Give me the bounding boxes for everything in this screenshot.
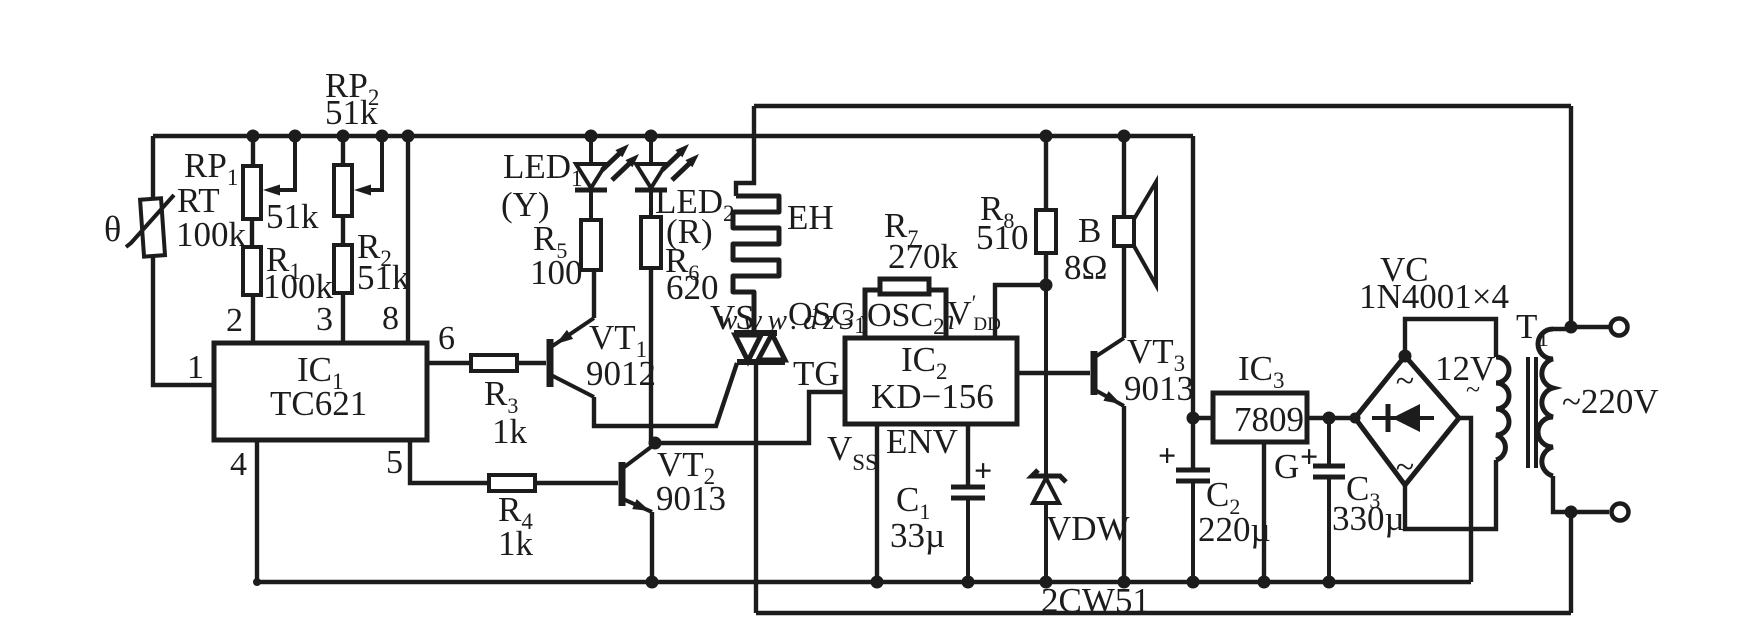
svg-text:~: ~ xyxy=(1466,375,1480,404)
wire bridge top to secondary top xyxy=(1405,319,1496,357)
svg-text:2CW51: 2CW51 xyxy=(1041,581,1150,620)
svg-text:OSC2: OSC2 xyxy=(867,297,945,339)
label R7 xyxy=(884,206,918,250)
svg-text:2: 2 xyxy=(226,302,243,339)
speaker B xyxy=(1114,182,1156,285)
wire IC3 G pin to ground xyxy=(1262,442,1266,582)
bridge rectifier VC xyxy=(1355,356,1459,486)
label C2 xyxy=(1206,475,1240,519)
node speaker top xyxy=(1118,130,1131,143)
svg-text:+: + xyxy=(974,452,992,488)
resistor R3 xyxy=(471,355,517,371)
label VC xyxy=(1380,250,1429,289)
LED D1 (LED1) xyxy=(575,136,639,220)
node top terminal junction xyxy=(1565,321,1578,334)
transistor VT1 9012 xyxy=(550,318,594,397)
value 8ohm xyxy=(1064,248,1108,287)
node LED1 anode xyxy=(585,130,598,143)
capacitor C3 330u xyxy=(1300,418,1345,582)
label VDD' xyxy=(947,290,1001,335)
svg-text:G: G xyxy=(1274,447,1299,486)
wire mains rail down to EH xyxy=(736,106,754,196)
label C3 xyxy=(1346,469,1380,513)
svg-text:9013: 9013 xyxy=(1124,369,1194,408)
svg-text:330µ: 330µ xyxy=(1332,499,1405,538)
value 330u (C3) xyxy=(1332,499,1405,538)
value 9012 xyxy=(586,354,656,393)
label OSC1 xyxy=(788,296,866,338)
svg-text:3: 3 xyxy=(316,301,333,338)
value 2CW51 xyxy=(1041,581,1150,620)
label R5 xyxy=(533,219,567,263)
node RP1 wiper xyxy=(289,130,302,143)
node C3 tap xyxy=(1323,412,1336,425)
label VT1 xyxy=(589,318,647,362)
IC U2 oscillator notch xyxy=(865,290,946,338)
wire IC3 output xyxy=(1307,416,1355,420)
svg-text:1k: 1k xyxy=(498,524,534,563)
label θ xyxy=(104,209,121,249)
node RP1 top xyxy=(247,130,260,143)
svg-text:8: 8 xyxy=(382,300,399,337)
label (Y) xyxy=(501,185,550,224)
label C1 xyxy=(896,480,930,524)
value 51k (RP2) xyxy=(325,93,378,132)
node pin8 tap xyxy=(402,130,415,143)
svg-text:8Ω: 8Ω xyxy=(1064,248,1108,287)
resistor R6 xyxy=(641,217,661,268)
wire rail to IC1 pin8 xyxy=(406,136,410,343)
wire rail to RT top xyxy=(151,136,155,200)
label (R) xyxy=(666,212,713,251)
wire mains top rail xyxy=(754,104,1571,108)
svg-text:270k: 270k xyxy=(888,237,959,276)
value 9013 (VT3) xyxy=(1124,369,1194,408)
label VT2 xyxy=(657,445,715,489)
pin 4 xyxy=(230,446,247,483)
RP2 wiper arm xyxy=(354,136,382,196)
label R2 xyxy=(357,227,392,271)
value 1N4001x4 xyxy=(1359,277,1509,316)
value 510 (R8) xyxy=(976,218,1029,257)
label OSC2 xyxy=(867,297,945,339)
svg-text:51k: 51k xyxy=(266,197,319,236)
svg-text:TG: TG xyxy=(793,354,840,393)
svg-text:33µ: 33µ xyxy=(890,516,945,555)
wire primary top to terminal xyxy=(1553,327,1571,331)
wire R6 to VT2 collector node xyxy=(649,268,653,443)
node VDD junction xyxy=(1040,279,1053,292)
potentiometer RP1 body xyxy=(243,166,261,219)
label R3 xyxy=(484,374,518,418)
transistor VT2 9013 xyxy=(622,444,655,512)
resistor R8 xyxy=(1036,210,1056,253)
svg-text:~: ~ xyxy=(1396,449,1414,486)
node RP2 wiper xyxy=(376,130,389,143)
LED D2 (LED2) xyxy=(635,136,699,217)
label VDW xyxy=(1046,509,1130,548)
label EH xyxy=(787,198,834,237)
node IC3 input xyxy=(1187,412,1200,425)
svg-text:OSC1: OSC1 xyxy=(788,296,866,338)
wire mains rail down to top terminal xyxy=(1571,106,1609,327)
transformer T1 primary winding 220V xyxy=(1538,329,1553,476)
wire mains bottom rail up to bottom terminal xyxy=(1569,512,1573,613)
node C3 ground xyxy=(1323,576,1336,589)
node VDW ground xyxy=(1040,576,1053,589)
label T1 xyxy=(1516,307,1549,351)
label RP2 xyxy=(325,66,379,110)
wire rail to R8 xyxy=(1044,136,1048,210)
svg-text:4: 4 xyxy=(230,446,247,483)
wire R8 to VDD node xyxy=(1044,253,1048,285)
wire triac MT2 down to mains bottom rail xyxy=(754,365,758,613)
wire IC2 output to VT3 base xyxy=(1017,371,1090,375)
terminal bottom xyxy=(1612,504,1629,521)
svg-text:1k: 1k xyxy=(492,412,528,451)
label TG xyxy=(793,354,840,393)
node C1 ground xyxy=(962,576,975,589)
pin 2 xyxy=(226,302,243,339)
value 620 (R6) xyxy=(666,268,719,307)
svg-text:5: 5 xyxy=(386,444,403,481)
svg-text:+: + xyxy=(1158,437,1176,473)
wire R4 to VT2 base xyxy=(535,481,618,485)
triac VS xyxy=(734,333,785,362)
IC U2 KD-156 xyxy=(845,338,1017,424)
label R4 xyxy=(498,490,533,534)
svg-text:EH: EH xyxy=(787,198,834,237)
value 100k (R1) xyxy=(263,267,334,306)
label 7809 xyxy=(1234,400,1304,439)
label RP1 xyxy=(184,146,238,190)
wire VT1 emitter to R5 xyxy=(592,270,596,318)
value 270k (R7) xyxy=(888,237,959,276)
wire rail to RP1 xyxy=(251,136,255,166)
wire R2 to IC1 pin3 xyxy=(341,293,345,343)
wire IC2 VDD pin to R8 node xyxy=(995,285,1046,338)
label KD-156 xyxy=(871,377,994,416)
wire IC3 input stub xyxy=(1193,416,1213,420)
wire RP2 to R2 xyxy=(341,216,345,245)
value 1k (R3) xyxy=(492,412,528,451)
wire bridge right to ground rail xyxy=(1459,418,1471,582)
svg-text:6: 6 xyxy=(438,320,455,357)
resistor R1 xyxy=(243,247,261,295)
terminal top xyxy=(1611,319,1628,336)
svg-text:9012: 9012 xyxy=(586,354,656,393)
value 100 (R5) xyxy=(530,253,583,292)
wire primary bottom to terminal xyxy=(1553,476,1609,512)
capacitor C2 220u xyxy=(1158,437,1210,582)
node bridge left vertex xyxy=(1350,413,1361,424)
thermistor RT xyxy=(126,195,174,257)
watermark xyxy=(718,304,960,336)
node bottom terminal junction xyxy=(1565,506,1578,519)
svg-text:510: 510 xyxy=(976,218,1029,257)
svg-text:θ: θ xyxy=(104,209,121,249)
wire IC1 pin5 to R4 xyxy=(410,440,489,483)
label LED1 xyxy=(503,147,583,191)
resistor R4 xyxy=(489,475,535,491)
wire IC1 pin4 to ground rail xyxy=(255,440,259,582)
label 12V tilde xyxy=(1466,375,1480,404)
node R8 top xyxy=(1040,130,1053,143)
label VSS xyxy=(827,429,878,475)
pin 3 xyxy=(316,301,333,338)
capacitor C1 33u xyxy=(951,452,992,582)
label IC3 xyxy=(1238,349,1285,393)
wire bridge bottom to secondary bottom xyxy=(1405,460,1496,529)
label G xyxy=(1274,447,1299,486)
pin 5 xyxy=(386,444,403,481)
svg-text:~: ~ xyxy=(1396,363,1414,400)
svg-text:100: 100 xyxy=(530,253,583,292)
label 12V xyxy=(1435,349,1495,388)
svg-text:+: + xyxy=(1300,438,1318,474)
value 100k (RT) xyxy=(176,215,247,254)
wire top 9V rail xyxy=(153,134,1193,138)
label ~220V xyxy=(1562,382,1659,421)
RP1 wiper arm xyxy=(263,136,295,196)
IC U1 TC621 xyxy=(214,343,427,440)
label VS xyxy=(710,298,755,337)
node VT3 emitter ground xyxy=(1118,576,1131,589)
wire IC1 pin6 to R3 xyxy=(427,361,471,365)
node VSS ground xyxy=(871,576,884,589)
label RT xyxy=(177,181,220,220)
zener diode VDW 2CW51 xyxy=(1032,285,1066,582)
svg-text:1: 1 xyxy=(187,349,204,386)
transformer T1 secondary winding 12V xyxy=(1496,357,1509,460)
node bridge top vertex xyxy=(1399,350,1412,363)
transistor VT3 9013 xyxy=(1094,338,1124,406)
node VT2 emitter ground xyxy=(646,576,659,589)
resistor R2 xyxy=(334,245,352,293)
wire R3 to VT1 base xyxy=(517,361,546,365)
svg-text:220µ: 220µ xyxy=(1198,510,1271,549)
wire VT2 collector node to IC2 TG xyxy=(655,392,845,443)
label ENV xyxy=(886,422,958,461)
wire rail to RP2 xyxy=(341,136,345,165)
svg-text:1N4001×4: 1N4001×4 xyxy=(1359,277,1509,316)
wire VT1 collector to triac gate xyxy=(594,363,737,426)
pin 8 xyxy=(382,300,399,337)
value 33u (C1) xyxy=(890,516,945,555)
svg-text:51k: 51k xyxy=(357,258,410,297)
IC U3 7809 xyxy=(1213,393,1307,442)
node ground rail start xyxy=(253,578,261,586)
label B xyxy=(1078,211,1101,250)
potentiometer RP2 body xyxy=(334,165,352,216)
value 9013 (VT2) xyxy=(656,479,726,518)
label TC621 xyxy=(270,384,367,423)
label LED2 xyxy=(655,182,735,226)
value 51k (R2) xyxy=(357,258,410,297)
wire mains bottom rail xyxy=(756,611,1571,615)
node RP2 top xyxy=(337,130,350,143)
label VT3 xyxy=(1127,332,1185,376)
pin 6 xyxy=(438,320,455,357)
resistor R5 xyxy=(581,220,601,270)
wire RT to IC1 pin1 xyxy=(153,255,214,385)
svg-text:100k: 100k xyxy=(176,215,247,254)
transformer T1 core xyxy=(1528,357,1536,468)
wire R1 to IC1 pin2 xyxy=(251,295,255,343)
wire RP1 to R1 xyxy=(250,219,254,247)
node VT2 collector junction xyxy=(649,437,662,450)
wire rail to speaker xyxy=(1122,136,1126,217)
label IC2 xyxy=(901,340,948,384)
wire speaker to VT3 collector xyxy=(1122,246,1126,338)
svg-text:B: B xyxy=(1078,211,1101,250)
wire VT2 emitter to ground xyxy=(650,512,654,582)
value 51k (RP1) xyxy=(266,197,319,236)
wire VT3 emitter to ground xyxy=(1122,406,1126,582)
svg-text:~220V: ~220V xyxy=(1562,382,1659,421)
wire 9V rail down to IC3 input xyxy=(1191,136,1195,470)
svg-text:VDW: VDW xyxy=(1046,509,1130,548)
svg-text:51k: 51k xyxy=(325,93,378,132)
heater EH element xyxy=(733,196,779,333)
svg-text:7809: 7809 xyxy=(1234,400,1304,439)
node IC3 G ground xyxy=(1258,576,1271,589)
label R6 xyxy=(665,241,699,285)
value 220u (C2) xyxy=(1198,510,1271,549)
node C2 ground xyxy=(1187,576,1200,589)
svg-text:KD−156: KD−156 xyxy=(871,377,994,416)
svg-text:ENV: ENV xyxy=(886,422,958,461)
value 1k (R4) xyxy=(498,524,534,563)
svg-text:9013: 9013 xyxy=(656,479,726,518)
wire IC2 VSS to ground xyxy=(875,424,879,582)
wire ground rail xyxy=(257,580,1471,584)
label IC1 xyxy=(297,350,344,394)
resistor R7 xyxy=(880,279,929,294)
node LED2 anode xyxy=(645,130,658,143)
svg-text:TC621: TC621 xyxy=(270,384,367,423)
pin 1 xyxy=(187,349,204,386)
label R1 xyxy=(266,240,301,284)
wire IC2 ENV to C1 xyxy=(966,424,970,487)
label R8 xyxy=(980,189,1014,233)
